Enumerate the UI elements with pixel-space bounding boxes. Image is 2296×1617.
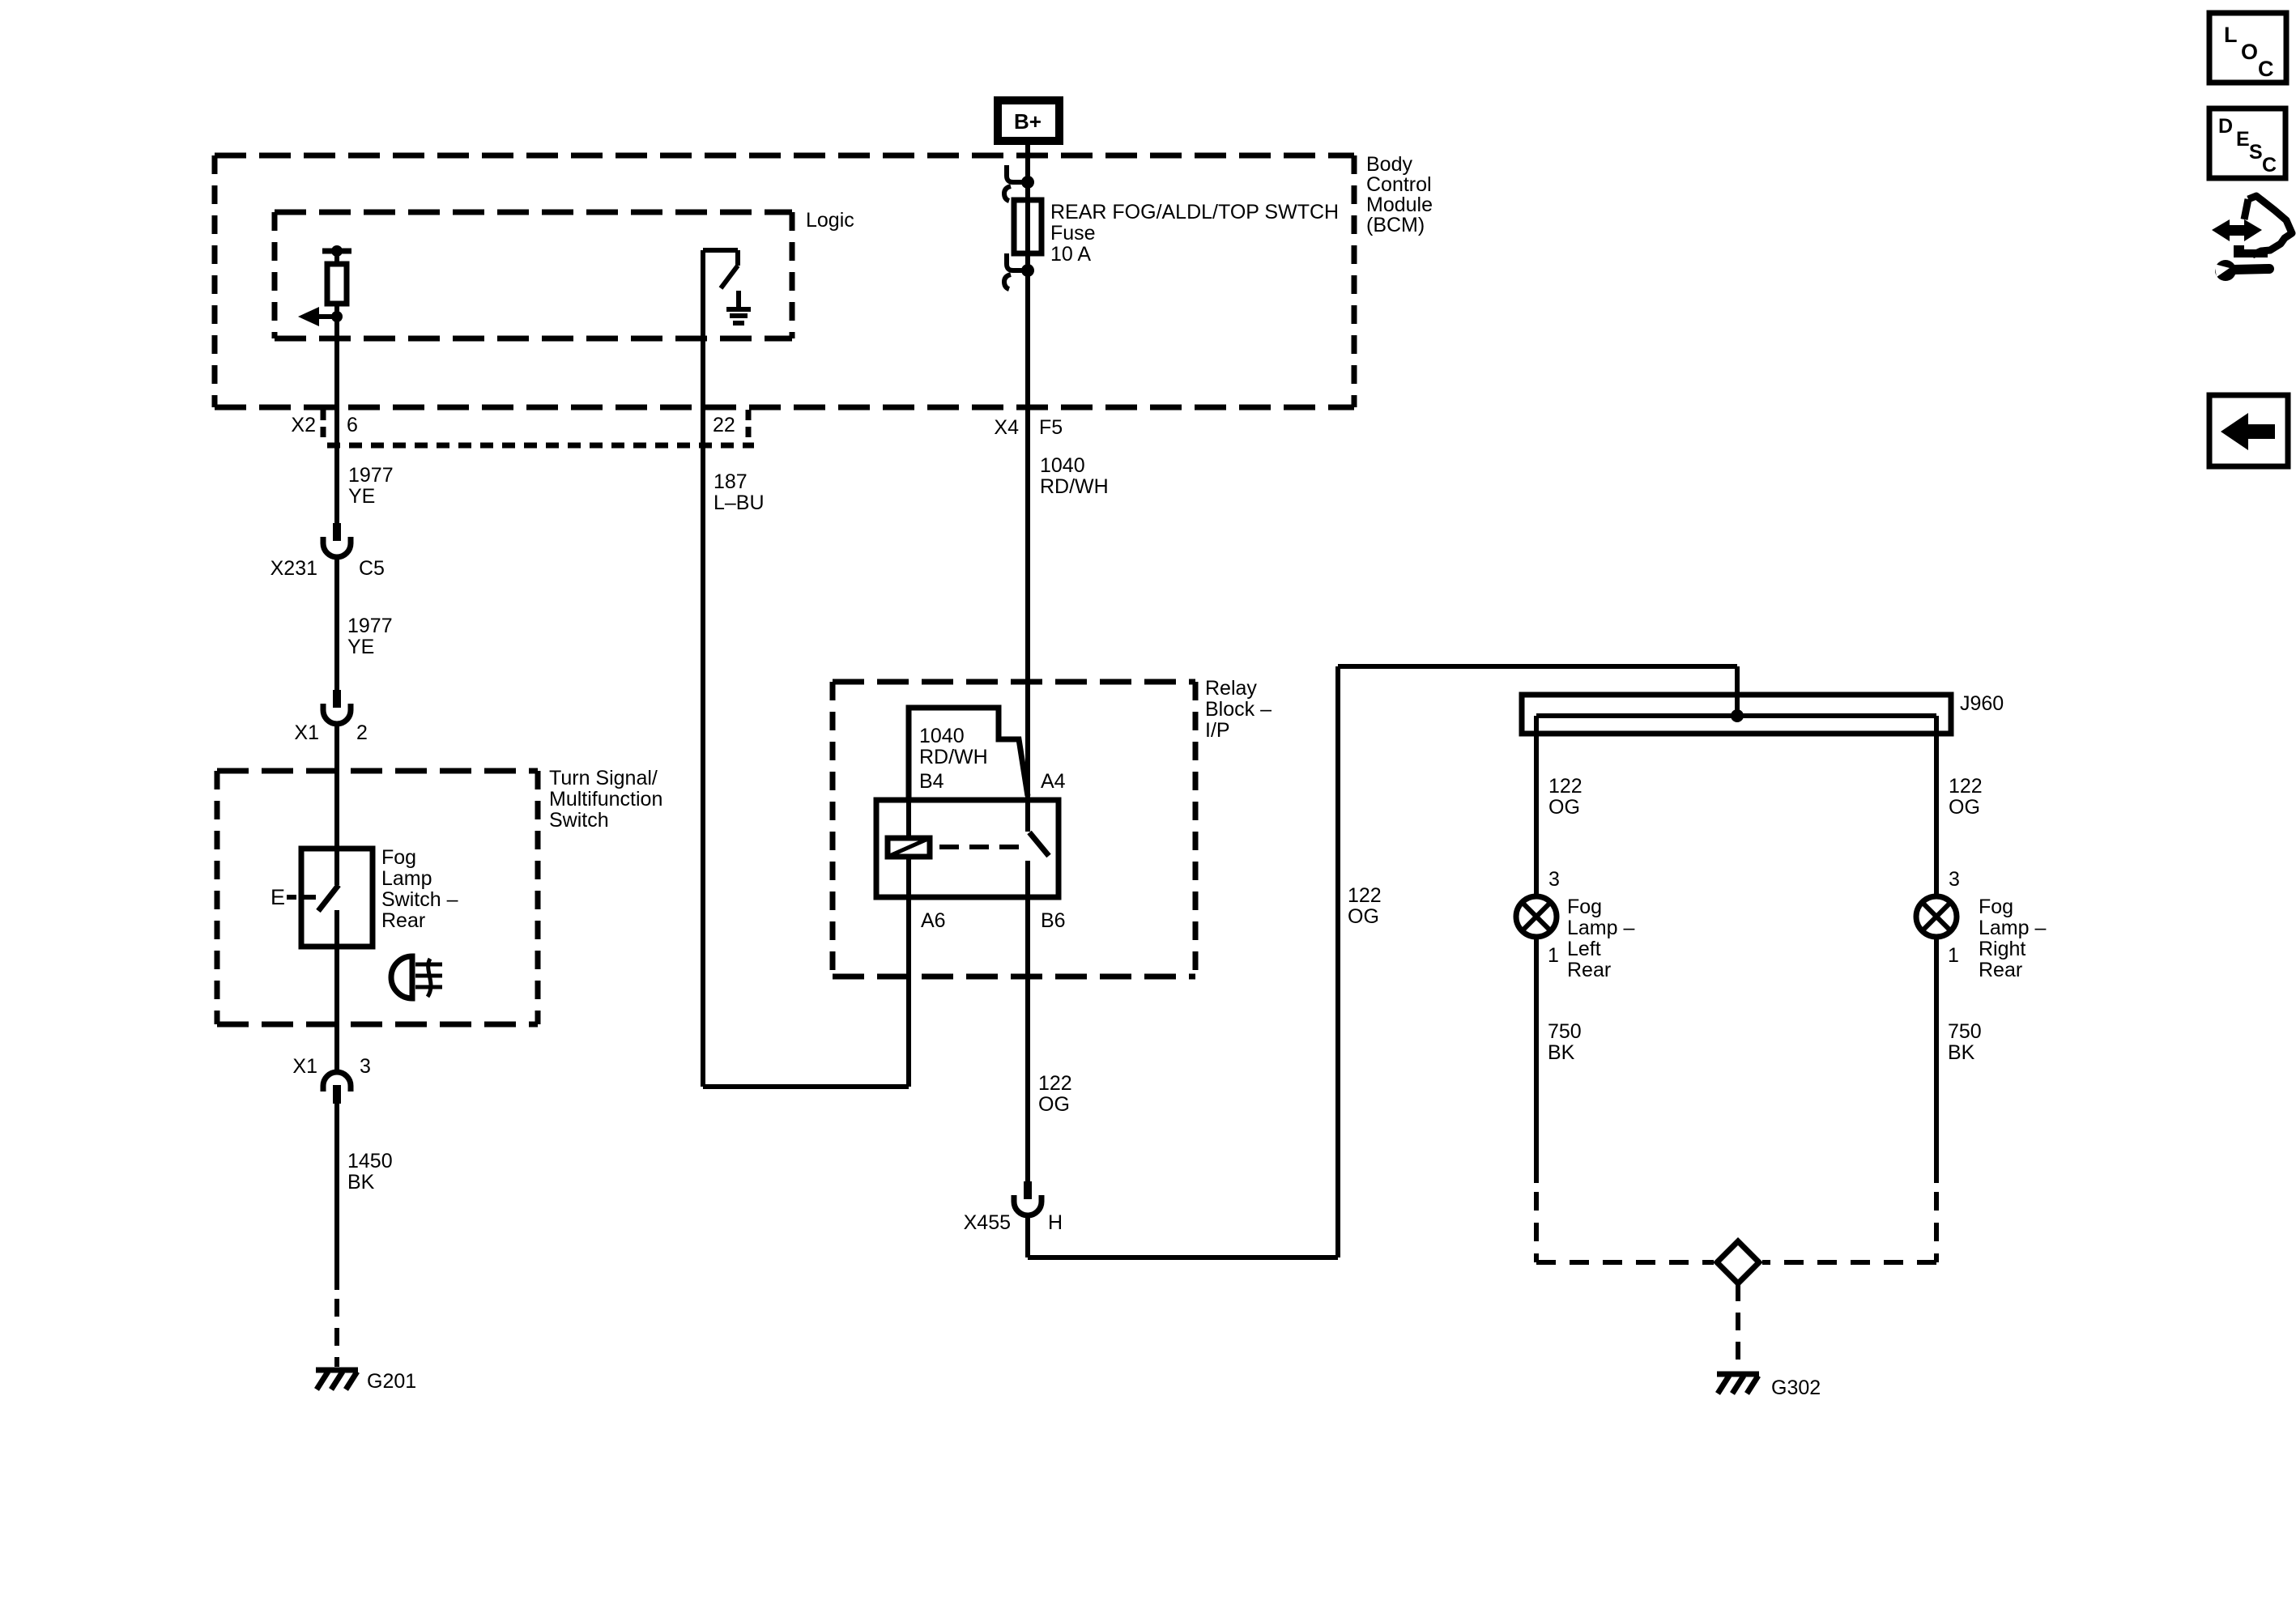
- svg-text:1977: 1977: [348, 464, 394, 487]
- svg-text:3: 3: [1949, 868, 1960, 891]
- svg-text:A6: A6: [921, 909, 946, 932]
- svg-text:750: 750: [1548, 1020, 1582, 1043]
- svg-text:22: 22: [713, 414, 735, 436]
- svg-text:122: 122: [1949, 775, 1983, 798]
- svg-text:X2: X2: [291, 414, 316, 436]
- svg-text:G302: G302: [1771, 1377, 1821, 1399]
- svg-text:YE: YE: [348, 485, 375, 508]
- svg-text:1040: 1040: [919, 725, 965, 747]
- svg-text:RD/WH: RD/WH: [919, 746, 988, 768]
- svg-text:H: H: [1048, 1211, 1063, 1234]
- svg-text:122: 122: [1038, 1072, 1072, 1095]
- svg-text:Relay: Relay: [1205, 677, 1257, 700]
- svg-text:C5: C5: [359, 557, 385, 580]
- svg-text:X4: X4: [994, 416, 1019, 439]
- svg-text:Rear: Rear: [381, 909, 425, 932]
- svg-text:Multifunction: Multifunction: [549, 788, 662, 811]
- svg-text:X1: X1: [292, 1055, 317, 1078]
- svg-text:Switch –: Switch –: [381, 888, 458, 911]
- svg-text:Rear: Rear: [1567, 959, 1611, 981]
- svg-text:1: 1: [1948, 944, 1959, 967]
- svg-text:J960: J960: [1960, 692, 2004, 715]
- svg-text:Fog: Fog: [1567, 896, 1602, 918]
- svg-text:Right: Right: [1979, 938, 2026, 960]
- svg-text:122: 122: [1348, 884, 1382, 907]
- svg-text:X455: X455: [964, 1211, 1011, 1234]
- svg-text:YE: YE: [347, 636, 374, 658]
- svg-text:I/P: I/P: [1205, 719, 1230, 742]
- svg-text:BK: BK: [1548, 1041, 1575, 1064]
- svg-text:Lamp –: Lamp –: [1567, 917, 1634, 939]
- svg-text:Lamp –: Lamp –: [1979, 917, 2046, 939]
- svg-text:3: 3: [1548, 868, 1560, 891]
- svg-text:Logic: Logic: [806, 209, 854, 232]
- svg-text:B6: B6: [1041, 909, 1066, 932]
- svg-text:Block –: Block –: [1205, 698, 1272, 721]
- svg-text:L: L: [2224, 23, 2238, 47]
- svg-text:Body: Body: [1366, 153, 1412, 176]
- svg-text:BK: BK: [347, 1171, 375, 1194]
- svg-text:C: C: [2262, 154, 2277, 177]
- svg-text:Control: Control: [1366, 173, 1432, 196]
- svg-text:(BCM): (BCM): [1366, 214, 1425, 236]
- svg-text:X231: X231: [270, 557, 317, 580]
- svg-text:122: 122: [1548, 775, 1582, 798]
- svg-text:Fog: Fog: [1979, 896, 2013, 918]
- svg-text:F5: F5: [1039, 416, 1063, 439]
- svg-text:A4: A4: [1041, 770, 1066, 793]
- svg-text:OG: OG: [1949, 796, 1980, 819]
- svg-text:B+: B+: [1014, 109, 1042, 134]
- svg-text:Turn Signal/: Turn Signal/: [549, 767, 658, 789]
- svg-text:Module: Module: [1366, 194, 1433, 216]
- svg-text:C: C: [2258, 57, 2274, 81]
- svg-text:OG: OG: [1038, 1093, 1070, 1116]
- svg-text:Switch: Switch: [549, 809, 609, 832]
- svg-text:B4: B4: [919, 770, 944, 793]
- svg-text:S: S: [2249, 141, 2263, 164]
- svg-text:1: 1: [1548, 944, 1559, 967]
- svg-text:REAR FOG/ALDL/TOP SWTCH: REAR FOG/ALDL/TOP SWTCH: [1050, 201, 1339, 223]
- svg-text:1450: 1450: [347, 1150, 393, 1172]
- svg-text:2: 2: [356, 721, 368, 744]
- svg-text:Left: Left: [1567, 938, 1601, 960]
- svg-text:L–BU: L–BU: [714, 491, 765, 514]
- svg-text:D: D: [2218, 115, 2233, 138]
- svg-text:3: 3: [360, 1055, 371, 1078]
- svg-text:Lamp: Lamp: [381, 867, 432, 890]
- svg-text:G201: G201: [367, 1370, 416, 1393]
- svg-text:OG: OG: [1348, 905, 1379, 928]
- svg-text:1040: 1040: [1040, 454, 1085, 477]
- svg-text:6: 6: [347, 414, 358, 436]
- svg-text:187: 187: [714, 470, 748, 493]
- svg-text:X1: X1: [294, 721, 319, 744]
- svg-text:10 A: 10 A: [1050, 243, 1091, 266]
- svg-text:Fog: Fog: [381, 846, 416, 869]
- svg-text:1977: 1977: [347, 615, 393, 637]
- svg-text:RD/WH: RD/WH: [1040, 475, 1109, 498]
- svg-text:O: O: [2241, 40, 2258, 64]
- svg-text:Rear: Rear: [1979, 959, 2022, 981]
- svg-text:E: E: [2236, 128, 2250, 151]
- svg-text:750: 750: [1948, 1020, 1982, 1043]
- svg-text:OG: OG: [1548, 796, 1580, 819]
- svg-text:BK: BK: [1948, 1041, 1975, 1064]
- svg-text:E: E: [270, 885, 285, 909]
- svg-text:Fuse: Fuse: [1050, 222, 1096, 245]
